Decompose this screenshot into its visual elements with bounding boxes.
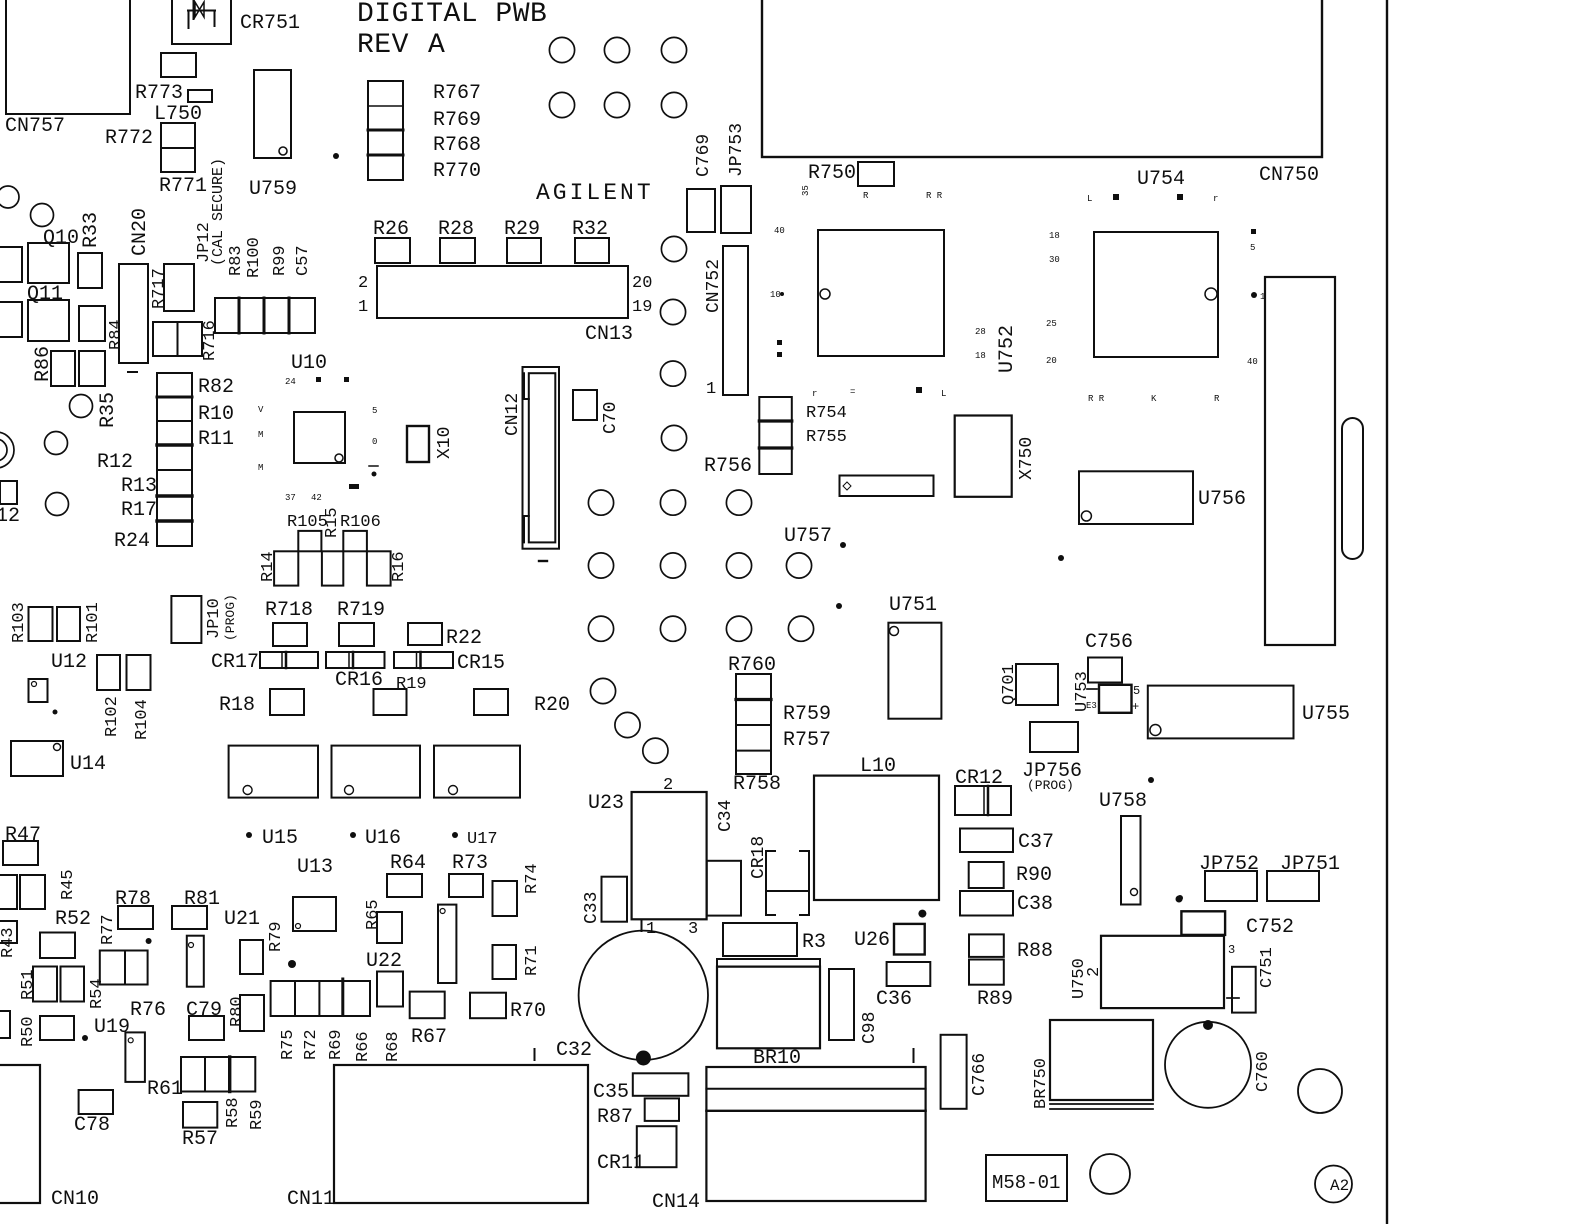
svg-text:CN14: CN14	[652, 1191, 700, 1214]
svg-text:U750: U750	[1070, 958, 1089, 999]
svg-text:C752: C752	[1246, 916, 1294, 939]
svg-text:R768: R768	[433, 134, 481, 157]
svg-text:AGILENT: AGILENT	[536, 180, 654, 206]
resistor R3	[723, 923, 826, 956]
label R13	[121, 475, 157, 498]
svg-text:R82: R82	[198, 376, 234, 399]
svg-text:CN757: CN757	[5, 115, 65, 138]
via	[660, 553, 685, 578]
ic U756	[1079, 471, 1246, 524]
resistor R34	[79, 306, 105, 341]
svg-text:R52: R52	[55, 908, 91, 931]
pad	[0, 481, 17, 504]
resistor R47	[3, 824, 41, 865]
svg-text:18: 18	[975, 351, 986, 361]
via	[615, 712, 640, 737]
resistor R80	[228, 995, 264, 1031]
svg-text:U21: U21	[224, 908, 260, 931]
svg-text:20: 20	[1046, 356, 1057, 366]
via	[661, 425, 686, 450]
pad	[0, 302, 22, 337]
svg-text:40: 40	[774, 226, 785, 236]
resistor R719	[337, 599, 385, 646]
capacitor C760	[1165, 1020, 1273, 1108]
label R83	[227, 245, 246, 276]
svg-text:A2: A2	[1330, 1177, 1349, 1195]
label R59	[248, 1099, 267, 1130]
via	[786, 553, 811, 578]
svg-text:X10: X10	[435, 427, 455, 459]
capacitor C79	[186, 999, 224, 1040]
resistor R61	[147, 1057, 255, 1101]
svg-text:R756: R756	[704, 455, 752, 478]
svg-text:R719: R719	[337, 599, 385, 622]
pin 25	[1046, 319, 1057, 329]
ic U755	[1148, 686, 1350, 739]
text DIGITAL PWB	[357, 0, 547, 30]
ic U758	[1099, 790, 1147, 905]
svg-text:+: +	[1132, 700, 1139, 714]
svg-text:U754: U754	[1137, 168, 1185, 191]
connector CN13	[358, 266, 652, 346]
svg-text:R45: R45	[59, 869, 78, 900]
svg-text:R13: R13	[121, 475, 157, 498]
fiducial dot	[288, 960, 296, 968]
svg-text:R57: R57	[182, 1128, 218, 1151]
svg-text:R72: R72	[302, 1029, 321, 1060]
svg-text:2: 2	[663, 776, 673, 795]
via	[726, 616, 751, 641]
svg-text:R767: R767	[433, 82, 481, 105]
svg-text:R R: R R	[1088, 394, 1105, 404]
svg-text:C78: C78	[74, 1114, 110, 1137]
fiducial dot	[1177, 895, 1183, 901]
svg-text:R90: R90	[1016, 864, 1052, 887]
svg-text:U758: U758	[1099, 790, 1147, 813]
pin marks above U754	[1087, 194, 1218, 204]
svg-text:25: 25	[1046, 319, 1057, 329]
svg-text:CN750: CN750	[1259, 164, 1319, 187]
resistor R716	[153, 320, 220, 361]
connector CN757	[5, 0, 130, 138]
svg-text:R14: R14	[259, 551, 278, 582]
svg-text:R80: R80	[228, 996, 247, 1027]
svg-text:R22: R22	[446, 627, 482, 650]
resistor R88	[969, 934, 1053, 963]
connector CN752	[704, 246, 748, 399]
ic U19 body	[125, 1032, 144, 1082]
svg-text:JP753: JP753	[727, 123, 747, 177]
pin 28	[975, 327, 986, 337]
svg-text:R R: R R	[926, 191, 943, 201]
resistor R45	[20, 869, 78, 909]
svg-text:R16: R16	[390, 551, 409, 582]
svg-text:R104: R104	[133, 699, 152, 740]
svg-text:R87: R87	[597, 1106, 633, 1129]
svg-text:2: 2	[1085, 967, 1104, 977]
pin marks left of U10	[258, 405, 264, 473]
label R770	[433, 160, 481, 183]
label R759	[783, 703, 831, 726]
capacitor C36	[876, 962, 930, 1011]
svg-text:R83: R83	[227, 245, 246, 276]
connector CN12	[503, 367, 559, 561]
svg-text:R35: R35	[97, 392, 120, 428]
diode CR12	[955, 767, 1011, 815]
label U22	[366, 950, 402, 973]
pin 30	[1049, 255, 1060, 265]
svg-text:R769: R769	[433, 109, 481, 132]
resistor R52 body	[40, 933, 75, 959]
via	[726, 490, 751, 515]
svg-text:R106: R106	[340, 513, 381, 532]
resistor R106	[340, 513, 381, 551]
svg-text:E3: E3	[1086, 701, 1097, 711]
resistor R750	[808, 162, 894, 186]
resistor R718	[265, 599, 313, 646]
ic U750	[1070, 936, 1235, 1008]
svg-text:U759: U759	[249, 178, 297, 201]
via	[604, 92, 629, 117]
svg-text:=: =	[850, 387, 855, 397]
svg-text:5: 5	[372, 406, 377, 416]
ic U751	[836, 594, 941, 719]
fiducial dot	[82, 1035, 88, 1041]
svg-text:R75: R75	[279, 1029, 298, 1060]
svg-text:R84: R84	[107, 319, 126, 350]
svg-text:R772: R772	[105, 127, 153, 150]
diode CR18	[749, 836, 809, 915]
connector CN10	[0, 1065, 99, 1211]
svg-text:C35: C35	[593, 1081, 629, 1104]
ic U10	[291, 352, 345, 463]
svg-text:CR17: CR17	[211, 651, 259, 674]
resistor row R75 R72 R69 R66	[271, 979, 370, 1016]
svg-text:R757: R757	[783, 729, 831, 752]
label R11	[198, 428, 234, 451]
via	[31, 204, 54, 227]
svg-text:U12: U12	[51, 651, 87, 674]
svg-text:U13: U13	[297, 856, 333, 879]
label U757	[784, 525, 846, 548]
fiducial dot	[918, 910, 926, 918]
via	[46, 493, 69, 516]
resistor R104	[127, 655, 153, 740]
label R35	[97, 392, 120, 428]
svg-text:R77: R77	[99, 914, 118, 945]
svg-text:30: 30	[1049, 255, 1060, 265]
resistor R33	[78, 212, 103, 288]
resistor network R767	[368, 81, 403, 180]
hole	[0, 432, 14, 468]
svg-text:U23: U23	[588, 792, 624, 815]
jumper JP756	[1022, 722, 1082, 793]
svg-text:REV: REV	[357, 30, 409, 61]
svg-text:M: M	[258, 430, 263, 440]
svg-text:C769: C769	[694, 134, 714, 177]
resistor R68	[377, 972, 403, 1063]
via	[660, 616, 685, 641]
ic U21 body	[187, 936, 204, 987]
resistor R22	[408, 623, 482, 650]
text REV A	[357, 30, 445, 61]
svg-text:R65: R65	[364, 899, 383, 930]
label R769	[433, 109, 481, 132]
resistor R101	[57, 602, 103, 643]
capacitor C34	[707, 800, 741, 916]
hole	[1090, 1154, 1130, 1194]
capacitor C766	[941, 1035, 990, 1109]
ic U15 body	[229, 746, 318, 798]
svg-text:R79: R79	[267, 921, 286, 952]
svg-text:U757: U757	[784, 525, 832, 548]
resistor R15	[322, 507, 343, 585]
svg-text:U10: U10	[291, 352, 327, 375]
svg-text:3: 3	[1228, 943, 1235, 957]
svg-text:2: 2	[358, 274, 368, 293]
svg-text:L: L	[941, 389, 946, 399]
capacitor C32	[556, 920, 708, 1066]
svg-text:C32: C32	[556, 1039, 592, 1062]
svg-text:R17: R17	[121, 499, 157, 522]
via	[588, 553, 613, 578]
bridge BR10	[717, 959, 820, 1070]
ic U12 body	[29, 679, 48, 702]
pin marks near R750	[801, 185, 943, 201]
inductor L10	[814, 755, 939, 900]
svg-text:U14: U14	[70, 753, 106, 776]
module M58-01	[986, 1155, 1067, 1201]
resistor row R83 R100 R99 C57	[215, 298, 315, 333]
svg-text:R67: R67	[411, 1026, 447, 1049]
label R10	[198, 403, 234, 426]
svg-text:C36: C36	[876, 988, 912, 1011]
svg-text:L: L	[1087, 194, 1092, 204]
pin marks right of U754	[1247, 229, 1265, 367]
pad	[0, 1011, 10, 1038]
svg-text:R54: R54	[88, 978, 107, 1009]
ic U23	[588, 776, 707, 939]
svg-text:M58-01: M58-01	[992, 1172, 1060, 1194]
svg-text:CN11: CN11	[287, 1188, 335, 1211]
resistor R81	[172, 888, 220, 929]
connector CN11	[287, 1049, 588, 1211]
label R69	[327, 1029, 346, 1060]
svg-text:28: 28	[975, 327, 986, 337]
diode CR16	[326, 652, 385, 692]
ic U752	[818, 230, 944, 356]
svg-text:R750: R750	[808, 162, 856, 185]
svg-text:R717: R717	[150, 268, 169, 309]
label R756	[704, 455, 752, 478]
svg-text:U755: U755	[1302, 703, 1350, 726]
ic U22 body	[438, 905, 456, 983]
capacitor C751	[1227, 947, 1277, 1012]
resistor network R82	[157, 373, 192, 546]
resistor R78	[115, 888, 153, 929]
svg-text:R770: R770	[433, 160, 481, 183]
pin 24	[285, 377, 349, 387]
via	[549, 37, 574, 62]
svg-text:r: r	[1213, 194, 1218, 204]
jumper JP751	[1267, 853, 1340, 901]
via	[590, 678, 615, 703]
fiducial dot	[146, 938, 152, 944]
via	[588, 490, 613, 515]
resistor R85	[79, 351, 105, 386]
svg-text:Q11: Q11	[27, 283, 63, 306]
svg-text:CR11: CR11	[597, 1152, 645, 1175]
resistor network R756	[759, 397, 792, 474]
svg-text:R50: R50	[19, 1016, 38, 1047]
svg-text:U756: U756	[1198, 488, 1246, 511]
svg-text:R99: R99	[271, 245, 290, 276]
fiducial dot	[333, 153, 339, 159]
resistor R43	[0, 921, 18, 958]
label R754	[806, 404, 847, 423]
svg-text:R771: R771	[159, 175, 207, 198]
svg-text:R89: R89	[977, 988, 1013, 1011]
svg-text:(PROG): (PROG)	[223, 594, 238, 641]
resistor R73	[449, 852, 488, 897]
svg-text:R61: R61	[147, 1078, 183, 1101]
resistor R26	[373, 218, 410, 263]
fiducial dot	[53, 710, 58, 715]
label R54	[88, 978, 107, 1009]
svg-text:R755: R755	[806, 428, 847, 447]
svg-text:(PROG): (PROG)	[1027, 778, 1074, 793]
pin 37 42	[285, 484, 359, 503]
label U26	[854, 924, 925, 955]
label R757	[783, 729, 831, 752]
svg-text:R51: R51	[19, 969, 38, 1000]
resistor R19	[374, 689, 407, 715]
resistor R29	[504, 218, 541, 263]
svg-text:U752: U752	[996, 325, 1019, 373]
svg-text:C70: C70	[601, 402, 621, 434]
label U17	[452, 830, 498, 849]
svg-text:U16: U16	[365, 827, 401, 850]
resistor R65	[364, 899, 402, 943]
resistor network R760	[728, 654, 776, 774]
svg-text:r: r	[812, 389, 817, 399]
svg-text:R59: R59	[248, 1099, 267, 1130]
resistor R57	[182, 1102, 218, 1151]
svg-text:R11: R11	[198, 428, 234, 451]
svg-text:35: 35	[801, 185, 811, 196]
ic U14	[11, 741, 106, 776]
label Q12	[0, 505, 20, 528]
board edge	[1386, 0, 1388, 1224]
label U16	[350, 827, 401, 850]
label U19	[94, 1016, 130, 1039]
svg-text:R3: R3	[802, 931, 826, 954]
svg-text:R76: R76	[130, 999, 166, 1022]
label C57	[294, 245, 313, 276]
svg-text:R10: R10	[198, 403, 234, 426]
svg-text:DIGITAL PWB: DIGITAL PWB	[357, 0, 547, 30]
svg-text:R103: R103	[10, 602, 29, 643]
svg-text:R20: R20	[534, 694, 570, 717]
capacitor C37	[960, 829, 1054, 855]
svg-text:CR751: CR751	[240, 12, 300, 35]
label R76	[130, 999, 166, 1022]
svg-text:1: 1	[358, 298, 368, 317]
svg-text:0: 0	[372, 437, 377, 447]
label CR17	[211, 651, 259, 674]
svg-text:BR750: BR750	[1032, 1058, 1051, 1109]
svg-text:R33: R33	[80, 212, 103, 248]
pin 18	[1049, 231, 1060, 241]
label R24	[114, 530, 150, 553]
resistor R89	[969, 960, 1013, 1012]
via	[661, 92, 686, 117]
svg-text:42: 42	[311, 493, 322, 503]
svg-text:R758: R758	[733, 773, 781, 796]
label R100	[245, 237, 264, 278]
resistor R103	[10, 602, 53, 643]
pin marks right of U10	[369, 406, 378, 477]
resistor R771	[159, 148, 207, 198]
capacitor C78	[74, 1090, 113, 1137]
hole	[1298, 1069, 1342, 1113]
resistor R28	[438, 218, 475, 263]
svg-text:M: M	[258, 463, 263, 473]
svg-text:R58: R58	[224, 1097, 243, 1128]
via	[45, 432, 68, 455]
label R84	[107, 319, 126, 350]
label R17	[121, 499, 157, 522]
connector shell	[1265, 277, 1335, 645]
label U752	[996, 325, 1019, 373]
svg-text:C33: C33	[582, 892, 602, 924]
label U15	[246, 827, 298, 850]
svg-text:C760: C760	[1254, 1051, 1273, 1092]
capacitor C756	[1085, 631, 1133, 683]
via	[0, 186, 19, 208]
svg-text:V: V	[258, 405, 264, 415]
svg-text:CN752: CN752	[704, 259, 724, 313]
component pad strip	[840, 476, 934, 497]
resistor R717	[150, 264, 194, 311]
svg-text:U15: U15	[262, 827, 298, 850]
svg-text:U751: U751	[889, 594, 937, 617]
svg-text:C756: C756	[1085, 631, 1133, 654]
ic U16 body	[332, 746, 421, 798]
hole A2	[1315, 1166, 1352, 1203]
svg-text:R64: R64	[390, 852, 426, 875]
bridge BR750	[1032, 1020, 1153, 1109]
resistor R67	[410, 992, 447, 1049]
mounting slot	[1342, 418, 1363, 559]
svg-text:R24: R24	[114, 530, 150, 553]
resistor R90	[969, 862, 1052, 888]
svg-text:3: 3	[688, 920, 698, 939]
diode CR15	[394, 652, 505, 675]
via	[70, 395, 93, 418]
svg-text:C34: C34	[716, 800, 736, 832]
ic U17 body	[434, 746, 520, 798]
svg-text:Q10: Q10	[43, 227, 79, 250]
label R12	[97, 451, 133, 474]
jumper JP753	[721, 123, 751, 233]
pin 18	[975, 351, 986, 361]
svg-text:R754: R754	[806, 404, 847, 423]
pin marks	[812, 387, 946, 399]
svg-text:12: 12	[0, 505, 20, 528]
svg-text:A: A	[428, 30, 445, 61]
svg-text:C751: C751	[1258, 947, 1277, 988]
